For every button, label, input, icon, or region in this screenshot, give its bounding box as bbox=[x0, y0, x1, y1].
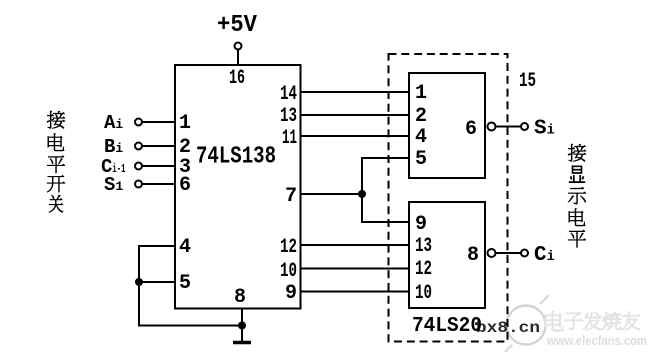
left caption char 4 bbox=[47, 175, 65, 192]
wire pin11 to gate pin4 bbox=[301, 135, 410, 137]
svg-text:2: 2 bbox=[415, 105, 427, 128]
wire pin7 bbox=[301, 193, 363, 195]
wire pin13 to gate pin2 bbox=[301, 114, 410, 116]
left caption char 1 bbox=[47, 111, 65, 128]
svg-text:13: 13 bbox=[280, 105, 297, 128]
right caption char 3 bbox=[568, 187, 586, 204]
watermark brand text 电子发烧友 bbox=[545, 311, 564, 331]
svg-text:7: 7 bbox=[285, 185, 297, 208]
wire pin7 branch to gate pin5 bbox=[362, 158, 409, 194]
terminal circle input Ci-1 bbox=[135, 163, 142, 170]
svg-text:8: 8 bbox=[467, 244, 479, 267]
terminal circle input S1 bbox=[135, 181, 142, 188]
wire input Ci-1 to IC bbox=[143, 165, 176, 167]
wire pin10 to gate pin12 bbox=[301, 268, 410, 270]
op IC U1 74LS138 body bbox=[175, 65, 301, 309]
junction node pins4-5 bbox=[135, 278, 143, 286]
junction node pin7 branch bbox=[358, 190, 366, 198]
svg-text:6: 6 bbox=[179, 174, 191, 197]
right caption char 5 bbox=[568, 230, 586, 247]
svg-text:11: 11 bbox=[282, 127, 297, 150]
left caption char 3 bbox=[47, 156, 65, 173]
svg-text:14: 14 bbox=[280, 83, 297, 106]
right caption char 4 bbox=[569, 208, 585, 226]
terminal circle Ci bbox=[521, 250, 528, 257]
wire pin7 branch to gate pin9 bbox=[362, 194, 409, 222]
svg-text:4: 4 bbox=[179, 236, 191, 259]
dashed enclosure 74LS20 bbox=[389, 54, 508, 342]
wire pin 4 bbox=[139, 246, 175, 282]
wire gate1 output bbox=[496, 126, 522, 128]
svg-text:74LS138: 74LS138 bbox=[196, 144, 276, 171]
right caption char 2 (xian) bbox=[569, 166, 585, 182]
wire pin9 to gate pin10 bbox=[301, 291, 410, 293]
gate1 inversion bubble bbox=[488, 123, 496, 131]
wire +5V to pin16 bbox=[237, 50, 239, 66]
wire input S1 to IC bbox=[143, 183, 176, 185]
terminal circle input Bi bbox=[135, 143, 142, 150]
wire gate2 output bbox=[496, 252, 522, 254]
wire pin12 to gate pin13 bbox=[301, 244, 410, 246]
wire pin14 to gate pin1 bbox=[301, 91, 410, 93]
terminal circle input Ai bbox=[135, 119, 142, 126]
wire input Bi to IC bbox=[143, 145, 176, 147]
svg-text:9: 9 bbox=[285, 282, 297, 305]
svg-text:74LS20: 74LS20 bbox=[412, 315, 482, 338]
svg-text:5: 5 bbox=[179, 272, 191, 295]
svg-text:8: 8 bbox=[234, 286, 246, 309]
wire pin 5 bbox=[139, 281, 175, 283]
svg-text:5: 5 bbox=[415, 148, 427, 171]
left caption char 5 bbox=[49, 195, 63, 212]
svg-text:16: 16 bbox=[229, 67, 245, 90]
ground symbol bbox=[233, 341, 251, 345]
left caption char 2 bbox=[48, 133, 64, 151]
svg-text:12: 12 bbox=[280, 236, 297, 259]
svg-text:4: 4 bbox=[415, 126, 427, 149]
svg-text:12: 12 bbox=[415, 258, 432, 281]
svg-text:www.elecfans.com: www.elecfans.com bbox=[546, 333, 647, 348]
terminal circle Si bbox=[521, 123, 528, 130]
watermark logo circle bbox=[505, 295, 549, 352]
svg-text:10: 10 bbox=[415, 282, 432, 305]
junction node ground bbox=[238, 322, 246, 330]
svg-text:1: 1 bbox=[179, 112, 191, 135]
wire tie to ground rail bbox=[139, 282, 242, 326]
svg-text:13: 13 bbox=[415, 235, 432, 258]
svg-text:6: 6 bbox=[465, 118, 477, 141]
gate2 inversion bubble bbox=[488, 249, 496, 257]
svg-text:15: 15 bbox=[519, 70, 536, 93]
wire pin 8 down bbox=[241, 309, 243, 342]
gate U2a 74LS20 body bbox=[409, 73, 485, 178]
svg-text:+5V: +5V bbox=[217, 12, 258, 39]
power terminal circle bbox=[235, 43, 242, 50]
svg-text:9: 9 bbox=[415, 213, 427, 236]
svg-text:1: 1 bbox=[415, 82, 427, 105]
right caption char 1 bbox=[568, 144, 586, 161]
svg-text:10: 10 bbox=[280, 260, 297, 283]
gate U2b 74LS20 body bbox=[409, 202, 485, 308]
wire input Ai to IC bbox=[143, 121, 176, 123]
